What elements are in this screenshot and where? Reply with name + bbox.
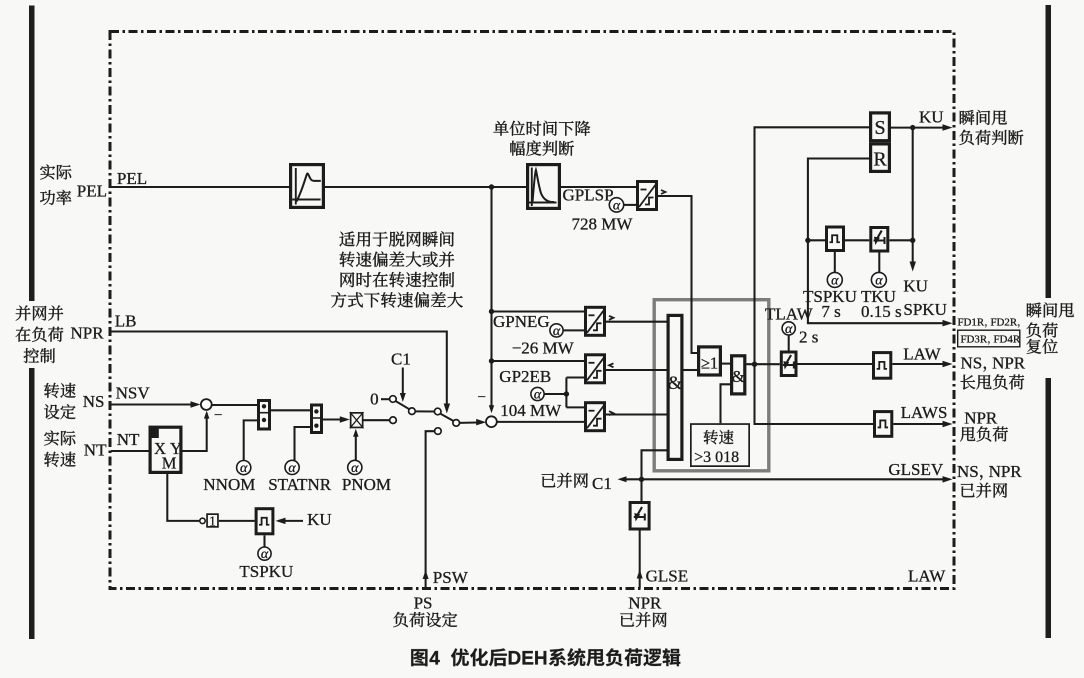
- KU input arrow into pulse block: [279, 520, 304, 522]
- dash-dot boundary frame: [110, 32, 954, 589]
- wire divider NNOM to divider STATNR: [271, 409, 310, 411]
- parameter a PNOM: [348, 460, 362, 474]
- wire GPNEG monitor to AND: [606, 321, 667, 323]
- svg-text:DEH: DEH: [508, 649, 548, 670]
- svg-text:M: M: [162, 454, 177, 473]
- lower fixed contact from multiplier: [390, 417, 397, 424]
- parameter a NNOM: [237, 461, 251, 475]
- left sidebar rule (lower segment): [29, 368, 35, 639]
- wire 728 monitor output to OR gate: [658, 196, 697, 353]
- wire NOT to pulse TSPKU: [219, 520, 255, 522]
- svg-text:α: α: [785, 322, 793, 337]
- parameter a TLAW 2s: [782, 322, 795, 335]
- svg-text:FD3R: FD3R: [961, 334, 988, 346]
- svg-text:KU: KU: [919, 108, 944, 127]
- threshold monitor GPNEG: [586, 307, 605, 335]
- label 并网并在负荷控制 NPR: [16, 305, 64, 320]
- SPKU output wire: [808, 240, 949, 323]
- svg-text:GPLSP: GPLSP: [563, 186, 614, 205]
- label 实际功率 PEL: [40, 165, 71, 180]
- svg-text:NPR: NPR: [992, 354, 1026, 373]
- svg-text:−: −: [478, 390, 486, 406]
- svg-text:C1: C1: [592, 474, 612, 493]
- vertical wire PEL junction down to summer: [490, 187, 492, 410]
- svg-text:7 s: 7 s: [821, 302, 840, 321]
- svg-text:FD4R: FD4R: [993, 334, 1020, 346]
- svg-text:4: 4: [429, 649, 440, 670]
- parameter a TSPKU: [263, 535, 265, 547]
- caption 图4 优化后DEH系统甩负荷逻辑: [411, 649, 427, 666]
- R input wire: [808, 159, 869, 241]
- svg-text:GLSE: GLSE: [646, 567, 689, 586]
- wire PEL filter to rate block: [325, 186, 526, 188]
- AND gate 2: [732, 356, 745, 394]
- wire pole to second switch: [415, 410, 434, 412]
- svg-text:STATNR: STATNR: [268, 475, 332, 494]
- svg-text:&: &: [668, 373, 683, 394]
- parameter a TKU: [878, 253, 880, 274]
- threshold monitor 104MW: [586, 403, 605, 431]
- grey group frame: [654, 300, 769, 471]
- switch pole contact: [409, 408, 416, 415]
- svg-text:−26 MW: −26 MW: [512, 339, 575, 358]
- GLSE input from border NPR: [639, 531, 641, 589]
- speed condition box 转速>3018: [691, 424, 749, 466]
- wire STATNR to multiplier: [323, 418, 347, 420]
- wire PSW contact down to border: [426, 431, 435, 588]
- label 瞬间甩负荷判断: [960, 110, 1007, 125]
- second switch upper contact: [434, 408, 441, 415]
- right sidebar rule (upper segment): [1046, 5, 1052, 298]
- svg-text:PNOM: PNOM: [342, 475, 391, 494]
- wire summer to divider NNOM: [212, 404, 257, 406]
- svg-text:KU: KU: [307, 510, 332, 529]
- svg-text:LAWS: LAWS: [901, 403, 948, 422]
- off-delay timer GLSE: [640, 479, 642, 501]
- main summing junction: [486, 416, 497, 427]
- wire AND out to OR: [684, 369, 698, 371]
- switch blade 0 to pole: [396, 401, 410, 409]
- svg-text:NPR: NPR: [964, 409, 998, 428]
- wire TSPKU to TKU: [845, 239, 869, 241]
- parameter a GPLSP: [609, 198, 623, 212]
- switch blade 2: [441, 414, 454, 421]
- svg-text:NSV: NSV: [116, 384, 151, 403]
- wire XY M lower output to NOT: [167, 474, 200, 521]
- wire OR to AND2: [722, 363, 730, 365]
- svg-text:NS: NS: [961, 354, 983, 373]
- pulse block LAWS: [875, 412, 892, 437]
- svg-text:α: α: [240, 461, 248, 476]
- wire multiplier to contact: [364, 419, 390, 421]
- svg-text:α: α: [553, 324, 561, 339]
- GLSEV output wire: [642, 478, 950, 480]
- svg-text:NT: NT: [117, 430, 140, 449]
- left sidebar rule (upper segment): [29, 6, 35, 302]
- KU output wire from S: [891, 127, 949, 129]
- svg-text:TSPKU: TSPKU: [239, 562, 293, 581]
- wire GP2EB monitor to AND: [606, 369, 667, 371]
- summing junction NS-NT: [201, 399, 212, 410]
- function generator X Y M: [150, 427, 181, 472]
- svg-text:NPR: NPR: [989, 462, 1023, 481]
- wire AND2 up to S input: [755, 127, 870, 364]
- AND gate (tall): [668, 315, 682, 459]
- pulse block TSPKU 7s: [808, 239, 825, 241]
- block 1 (NOT gate): [207, 514, 218, 527]
- svg-text:α: α: [261, 547, 269, 562]
- wire junction up into AND: [642, 450, 668, 479]
- svg-text:NS: NS: [83, 392, 105, 411]
- multiplier PNOM: [351, 413, 363, 428]
- svg-text:≥1: ≥1: [701, 354, 718, 373]
- svg-text:SPKU: SPKU: [903, 300, 946, 319]
- label 实际转速 NT: [44, 431, 75, 446]
- svg-text:LAW: LAW: [903, 345, 941, 364]
- threshold monitor GPLSP 728MW: [561, 186, 636, 188]
- svg-text:728 MW: 728 MW: [572, 215, 634, 234]
- note text 适用于脱网瞬间...: [339, 231, 453, 246]
- svg-text:S: S: [874, 117, 885, 139]
- svg-text:NPR: NPR: [71, 324, 105, 343]
- svg-text:GP2EB: GP2EB: [499, 367, 551, 386]
- svg-text:PS: PS: [414, 594, 433, 613]
- wire second pole to main summer: [460, 421, 483, 424]
- svg-text:0: 0: [370, 390, 379, 409]
- svg-text:−: −: [214, 408, 222, 424]
- svg-text:FD1R: FD1R: [958, 317, 985, 329]
- label 单位时间下降幅度判断: [493, 121, 590, 136]
- parameter a STATNR: [285, 460, 299, 474]
- pulse block TSPKU (speed set): [256, 509, 273, 534]
- divider block NNOM: [259, 401, 270, 430]
- parameter a GP2EB shared: [531, 387, 544, 400]
- LAWS output arrow: [893, 423, 949, 425]
- svg-text:α: α: [351, 461, 359, 476]
- svg-text:0.15 s: 0.15 s: [861, 302, 902, 321]
- svg-text:R: R: [873, 149, 887, 171]
- wire speed box to AND2: [721, 384, 731, 423]
- svg-text:C1: C1: [391, 350, 411, 369]
- wire AND2 output junction: [746, 363, 779, 365]
- svg-text:α: α: [613, 198, 621, 213]
- svg-text:PEL: PEL: [77, 182, 107, 201]
- svg-text:&: &: [732, 367, 745, 386]
- parameter a TSPKU: [834, 252, 836, 273]
- threshold monitor GP2EB: [586, 355, 605, 383]
- svg-text:GPNEG: GPNEG: [493, 312, 550, 331]
- wire 104MW monitor to AND: [606, 413, 667, 415]
- SR flip-flop R section: [871, 144, 890, 172]
- svg-text:PEL: PEL: [117, 169, 147, 188]
- filter block (step response) on PEL: [291, 165, 324, 208]
- rate-of-change block GPLSP: [528, 165, 560, 209]
- svg-text:FD2R: FD2R: [990, 317, 1017, 329]
- svg-text:KU: KU: [903, 277, 928, 296]
- wire TLAW to LAW pulse: [798, 363, 873, 365]
- svg-text:α: α: [288, 461, 296, 476]
- wire XY M output to summer (negative input): [183, 414, 207, 452]
- svg-text:104 MW: 104 MW: [500, 401, 562, 420]
- svg-text:1: 1: [209, 514, 216, 529]
- parameter a GPNEG: [550, 324, 563, 337]
- svg-text:TLAW: TLAW: [765, 305, 814, 324]
- KU vertical wire down: [912, 128, 914, 241]
- svg-text:NNOM: NNOM: [203, 475, 255, 494]
- svg-text:GLSEV: GLSEV: [888, 460, 944, 479]
- pulse block LAW: [874, 353, 891, 379]
- node GPNEG wire: [492, 310, 585, 312]
- node GP2EB wire: [492, 360, 585, 362]
- svg-text:2 s: 2 s: [799, 328, 818, 347]
- wire summer to 104MW monitor: [497, 421, 584, 423]
- svg-text:LB: LB: [115, 312, 137, 331]
- off-delay timer TKU: [871, 228, 888, 252]
- LAW output arrow: [892, 363, 949, 365]
- label 转速设定 NS: [44, 383, 75, 398]
- off-delay timer TLAW: [781, 352, 796, 376]
- lower fixed contact PSW: [435, 428, 442, 435]
- junction on PEL line: [489, 184, 494, 189]
- svg-text:>3 018: >3 018: [694, 449, 739, 466]
- right sidebar rule (lower segment): [1046, 378, 1052, 638]
- OR gate ≥1: [699, 347, 721, 375]
- svg-text:PSW: PSW: [433, 568, 469, 587]
- svg-text:NS: NS: [957, 462, 979, 481]
- SR flip-flop S section: [871, 113, 890, 141]
- svg-text:LAW: LAW: [908, 567, 946, 586]
- NOT circle: [200, 518, 205, 523]
- svg-text:NPR: NPR: [628, 594, 662, 613]
- divider block STATNR: [312, 405, 322, 433]
- second switch pole: [453, 420, 460, 427]
- wire AND2 down to LAWS pulse: [755, 364, 874, 424]
- label 瞬间甩负荷复位: [1027, 302, 1074, 317]
- svg-text:NT: NT: [84, 441, 107, 460]
